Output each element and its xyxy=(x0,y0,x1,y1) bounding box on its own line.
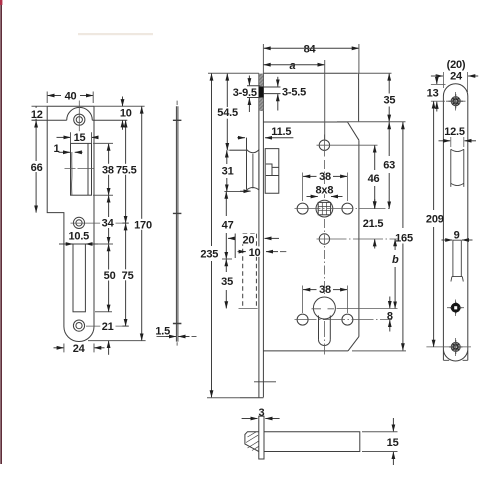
top extension line xyxy=(32,105,145,107)
lip fold line with screw bump xyxy=(32,107,128,120)
cutout inner edge xyxy=(87,143,89,195)
side view plate edge xyxy=(176,106,178,341)
lower cutout xyxy=(73,244,85,312)
faint top smudge xyxy=(78,33,153,35)
detail latch body xyxy=(264,432,360,452)
svg-text:38: 38 xyxy=(319,171,331,183)
case bottom edge xyxy=(263,350,348,352)
cylinder side hole right xyxy=(342,314,353,325)
middle hole ticks xyxy=(447,300,464,317)
case bottom ext xyxy=(352,350,406,352)
case inner top line xyxy=(263,121,347,123)
case notch diagonal xyxy=(348,122,359,140)
detail faceplate bar xyxy=(259,416,264,459)
faceplate edges xyxy=(259,73,264,397)
top circle xyxy=(319,140,329,150)
latch slot xyxy=(451,149,464,187)
latch center ext xyxy=(229,149,247,151)
mid circle centerline xyxy=(317,238,399,240)
dim 50 chain xyxy=(108,244,110,312)
svg-text:170: 170 xyxy=(134,219,152,231)
21 leader xyxy=(86,325,126,327)
axis dash hub to cylinder xyxy=(323,219,325,295)
dim 75 xyxy=(125,223,127,326)
dim 38 chain xyxy=(108,143,110,195)
svg-text:84: 84 xyxy=(304,43,317,55)
hub side hole right xyxy=(342,203,353,214)
screw hole top xyxy=(74,114,85,125)
dim 170 xyxy=(141,106,143,340)
side view ticks xyxy=(173,120,182,323)
screw hole bottom xyxy=(73,320,84,331)
svg-text:50: 50 xyxy=(104,270,116,282)
latch body boxes xyxy=(265,149,279,194)
case right edge xyxy=(358,140,360,336)
dim 1.5 xyxy=(157,336,171,338)
dim a xyxy=(287,60,299,70)
svg-text:8x8: 8x8 xyxy=(316,184,334,196)
svg-text:b: b xyxy=(392,254,399,266)
svg-text:15: 15 xyxy=(74,132,86,144)
bottom hole centerline xyxy=(426,346,471,348)
dim 1 xyxy=(59,151,71,153)
detail latch head xyxy=(245,432,259,452)
svg-text:47: 47 xyxy=(222,220,234,232)
dim 75.5 xyxy=(125,120,127,223)
svg-text:35: 35 xyxy=(221,276,233,288)
svg-text:40: 40 xyxy=(65,91,77,103)
svg-text:66: 66 xyxy=(31,162,43,174)
svg-text:24: 24 xyxy=(450,70,463,82)
deadbolt slot xyxy=(451,240,463,281)
cylinder axis bottom xyxy=(323,321,325,355)
cutout bottom extension xyxy=(95,311,112,313)
svg-text:38: 38 xyxy=(102,165,114,177)
cylinder holes centerline xyxy=(295,319,393,321)
case bottom diagonal xyxy=(348,337,359,351)
case right edge upper xyxy=(358,73,360,121)
hole top centerline xyxy=(78,100,80,135)
dim 10 arrows xyxy=(122,97,124,107)
svg-text:35: 35 xyxy=(383,94,395,106)
center axis dash xyxy=(323,160,325,198)
screw hole middle xyxy=(73,217,84,228)
dim 20 xyxy=(241,234,256,245)
svg-text:12.5: 12.5 xyxy=(444,126,465,138)
middle hole black xyxy=(449,301,463,315)
dim 10.5 xyxy=(59,243,73,245)
right plate outline xyxy=(443,84,467,361)
svg-text:3: 3 xyxy=(258,407,264,419)
dim 34 chain xyxy=(108,195,110,244)
svg-text:75.5: 75.5 xyxy=(116,165,137,177)
svg-text:12: 12 xyxy=(31,109,43,121)
svg-text:54.5: 54.5 xyxy=(217,107,238,119)
dim 84 xyxy=(301,43,319,53)
case 35 bottom ext xyxy=(337,121,406,123)
side view center dash xyxy=(176,101,178,346)
mid circle xyxy=(319,234,329,244)
hub outer circle xyxy=(316,200,333,217)
dim 165 xyxy=(402,122,404,228)
cylinder center ext xyxy=(239,308,398,310)
cutout centerline xyxy=(65,168,94,170)
svg-text:a: a xyxy=(289,60,295,72)
strike box end flanges xyxy=(443,359,467,361)
1mm offset line xyxy=(71,152,73,195)
svg-text:38: 38 xyxy=(319,284,331,296)
svg-text:24: 24 xyxy=(73,343,86,355)
svg-text:11.5: 11.5 xyxy=(271,126,291,138)
hole middle centerline xyxy=(71,222,126,224)
svg-text:10: 10 xyxy=(249,247,261,259)
hub side hole left xyxy=(297,203,308,214)
hub square 8x8 xyxy=(318,202,330,214)
latch lower ext line xyxy=(224,191,245,193)
svg-text:46: 46 xyxy=(368,173,380,185)
dim 21 chain bottom arrow xyxy=(108,341,110,355)
svg-text:34: 34 xyxy=(102,218,115,230)
top hole centerlines xyxy=(446,92,466,111)
svg-text:15: 15 xyxy=(387,437,399,449)
svg-text:235: 235 xyxy=(200,249,218,261)
hub centerline xyxy=(295,208,393,210)
svg-text:21.5: 21.5 xyxy=(363,218,384,230)
svg-text:3-5.5: 3-5.5 xyxy=(282,87,306,99)
dim 66 xyxy=(35,120,37,212)
svg-text:209: 209 xyxy=(426,214,444,226)
svg-text:75: 75 xyxy=(122,270,134,282)
faceplate screw tick xyxy=(254,381,276,383)
dim 40 xyxy=(47,95,93,97)
dim 8x8 xyxy=(316,184,333,194)
cutout2 top extension xyxy=(87,243,113,245)
dashed deadbolt box xyxy=(243,234,257,309)
svg-text:31: 31 xyxy=(222,166,234,178)
bottom extension line xyxy=(88,340,146,342)
strike plate outline xyxy=(47,106,94,341)
dim 10 throw xyxy=(247,246,262,257)
latch lines inside xyxy=(253,153,259,190)
svg-text:21: 21 xyxy=(102,321,114,333)
svg-text:165: 165 xyxy=(395,232,413,244)
hub knurl grid xyxy=(318,202,330,214)
detail head hatch xyxy=(246,432,259,451)
top circle centerlines xyxy=(317,144,378,146)
svg-text:63: 63 xyxy=(383,160,395,172)
cylinder profile xyxy=(313,297,335,319)
svg-text:1.5: 1.5 xyxy=(155,326,170,338)
faceplate hatch dark blob xyxy=(259,87,264,98)
faceplate bottom xyxy=(240,397,263,399)
svg-text:20: 20 xyxy=(242,235,254,247)
svg-text:10.5: 10.5 xyxy=(68,231,89,243)
svg-text:1: 1 xyxy=(53,143,59,155)
case top edge xyxy=(263,72,357,74)
red page corner mark xyxy=(0,0,2,5)
svg-text:13: 13 xyxy=(427,87,439,99)
latch head bevel xyxy=(230,138,259,190)
dim 12 xyxy=(32,119,37,121)
svg-text:10: 10 xyxy=(120,108,132,120)
dim 24 xyxy=(54,347,64,349)
bottom screw hole cross xyxy=(449,340,463,354)
latch cutout xyxy=(71,143,92,195)
faceplate section hatch xyxy=(259,74,263,111)
svg-text:9: 9 xyxy=(454,230,460,242)
latch hump xyxy=(247,188,259,190)
top screw hole cross xyxy=(449,94,464,108)
cylinder side hole left xyxy=(297,314,308,325)
red page edge line xyxy=(0,0,2,464)
dim 15 xyxy=(57,136,71,138)
